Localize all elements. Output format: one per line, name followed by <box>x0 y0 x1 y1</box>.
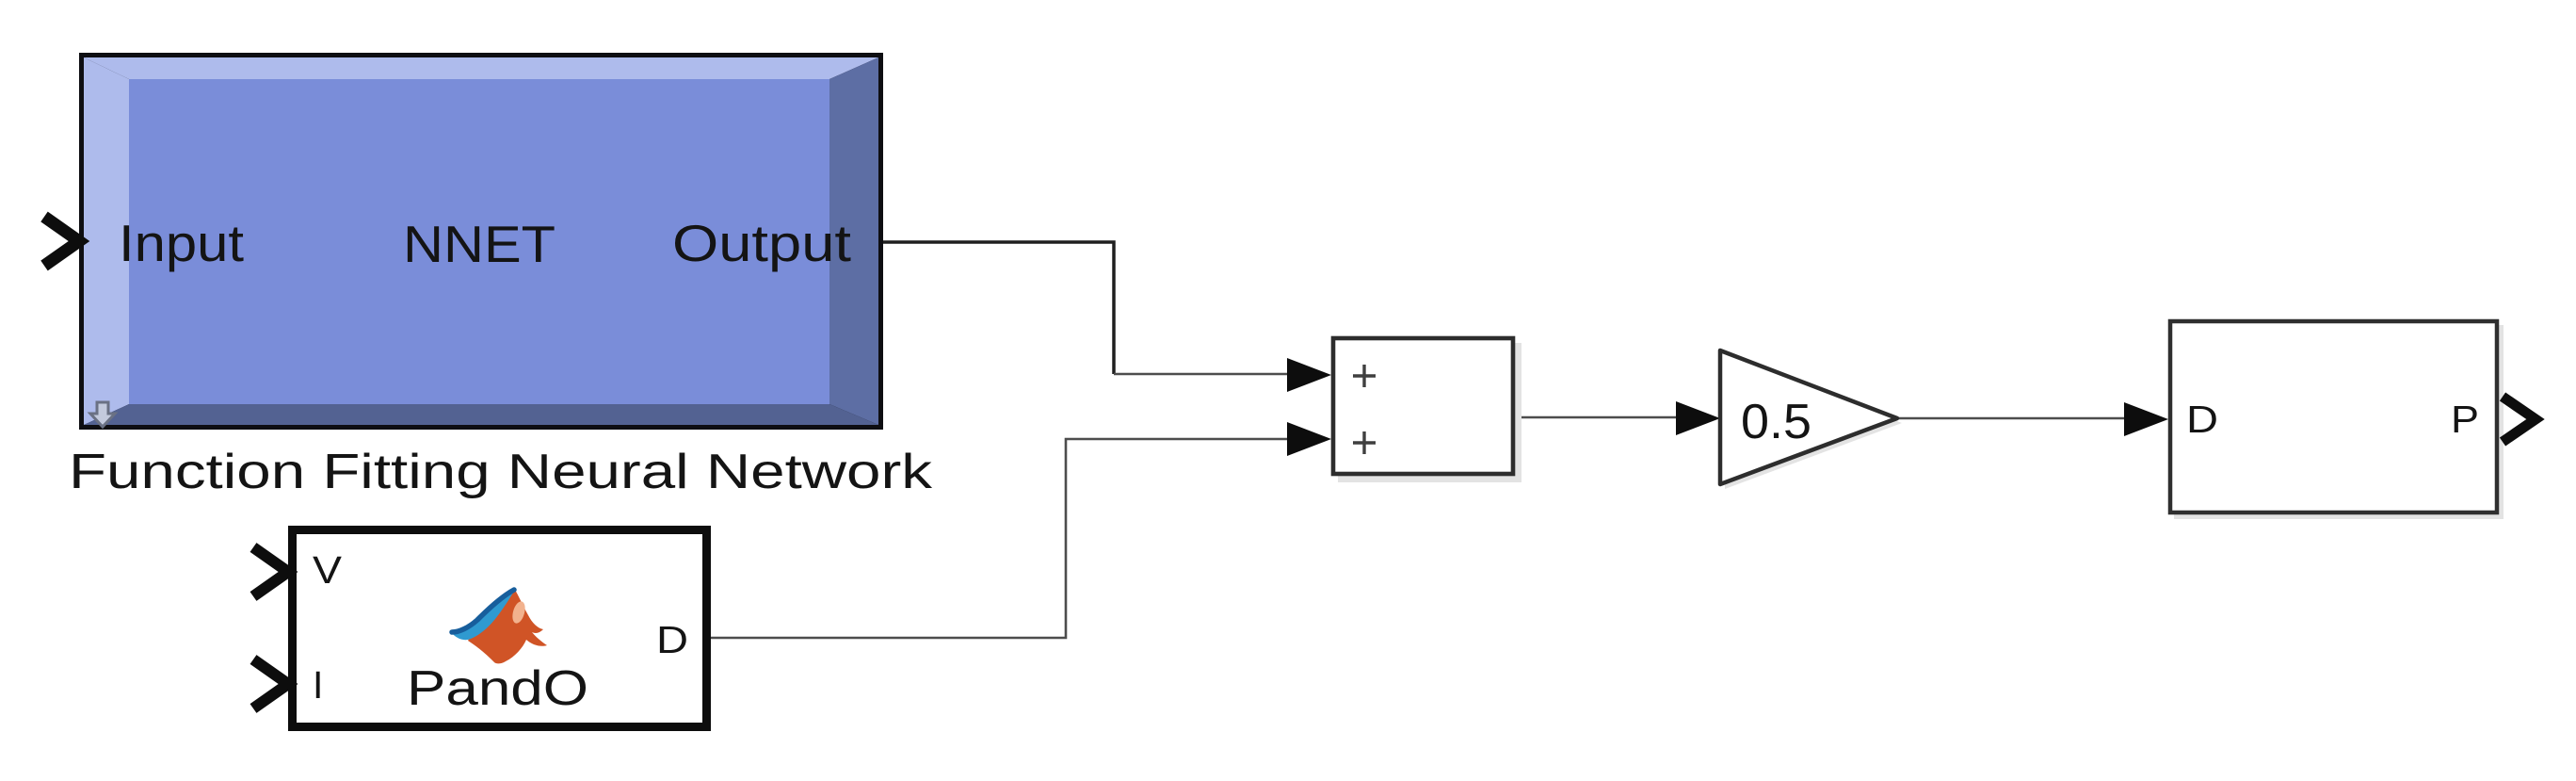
svg-text:V: V <box>313 548 343 592</box>
svg-text:D: D <box>656 618 688 661</box>
svg-text:PandO: PandO <box>407 661 588 716</box>
svg-text:I: I <box>313 663 323 707</box>
svg-text:P: P <box>2451 398 2479 441</box>
svg-text:Output: Output <box>672 214 851 272</box>
svg-text:Function Fitting Neural Networ: Function Fitting Neural Network <box>69 445 933 499</box>
svg-text:0.5: 0.5 <box>1741 395 1811 449</box>
svg-text:Input: Input <box>119 214 244 272</box>
svg-text:NNET: NNET <box>403 215 555 273</box>
svg-text:D: D <box>2186 398 2218 441</box>
